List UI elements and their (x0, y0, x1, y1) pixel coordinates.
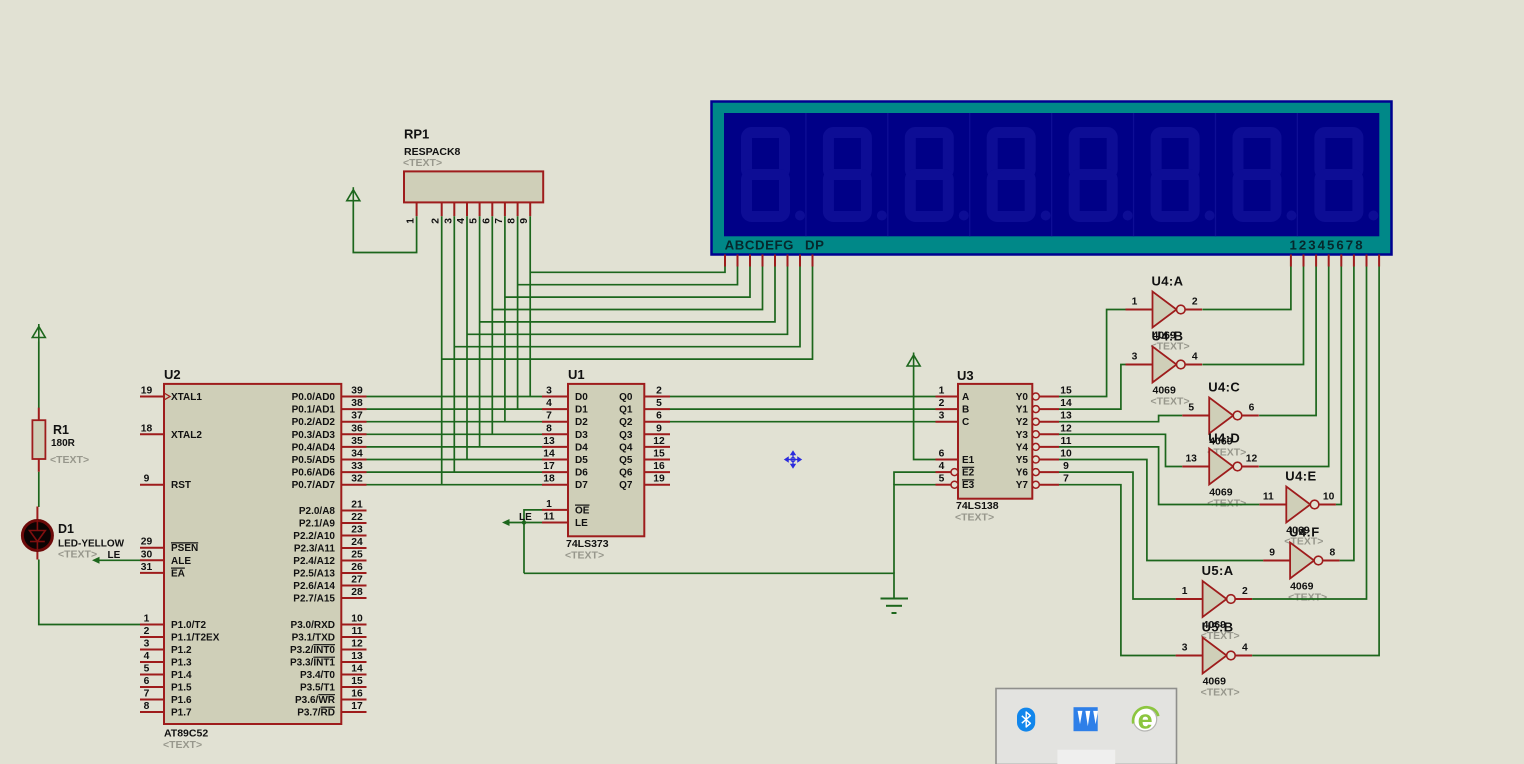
svg-text:PSEN: PSEN (171, 543, 198, 554)
svg-text:13: 13 (1060, 411, 1072, 422)
inverter U4:D (4069) (1182, 431, 1259, 510)
svg-text:D1: D1 (575, 405, 588, 416)
svg-text:7: 7 (546, 411, 552, 422)
svg-text:1: 1 (939, 386, 945, 397)
svg-text:22: 22 (351, 512, 363, 523)
power terminal (RP1 pin1) (347, 187, 360, 205)
svg-text:Q3: Q3 (619, 430, 633, 441)
svg-text:12: 12 (1060, 423, 1072, 434)
wire P0.6 to U1 D6 (367, 471, 543, 473)
wire inverter out to display pin 6 (1340, 267, 1354, 561)
svg-text:5: 5 (939, 474, 945, 485)
inverter U4:B (4069) (1126, 329, 1203, 408)
wire Y5 to U4:F (1059, 460, 1263, 561)
svg-text:8: 8 (507, 218, 518, 224)
svg-text:9: 9 (1269, 548, 1275, 559)
svg-text:10: 10 (351, 614, 363, 625)
svg-text:LE: LE (108, 550, 121, 561)
svg-text:13: 13 (1185, 454, 1197, 465)
svg-text:12: 12 (1246, 454, 1258, 465)
svg-text:D0: D0 (575, 392, 588, 403)
power terminal (VCC to R1) (32, 324, 45, 342)
svg-text:6: 6 (144, 676, 150, 687)
svg-text:P2.1/A9: P2.1/A9 (299, 519, 336, 530)
svg-text:<TEXT>: <TEXT> (565, 550, 604, 562)
svg-text:3: 3 (1132, 352, 1138, 363)
svg-text:4: 4 (1192, 352, 1198, 363)
wire P0.0 to U1 D0 (367, 396, 543, 398)
svg-text:RP1: RP1 (404, 127, 429, 142)
latch U1 (74LS373) (542, 367, 670, 562)
wire U3 E3 to ground rail (894, 485, 936, 574)
svg-text:P3.7/RD: P3.7/RD (297, 708, 335, 719)
wire display segment DP (442, 267, 813, 360)
svg-text:EA: EA (171, 568, 185, 579)
svg-text:E1: E1 (962, 455, 975, 466)
svg-text:U5:A: U5:A (1202, 563, 1234, 578)
resistor R1 (32, 408, 89, 472)
power terminal (U3 E1) (907, 353, 920, 371)
svg-text:AT89C52: AT89C52 (164, 728, 208, 740)
svg-text:P3.0/RXD: P3.0/RXD (291, 620, 335, 631)
svg-text:E2: E2 (962, 468, 975, 479)
svg-text:18: 18 (141, 423, 153, 434)
svg-text:P1.5: P1.5 (171, 683, 192, 694)
ground (881, 599, 909, 614)
svg-text:Y6: Y6 (1016, 468, 1029, 479)
svg-text:P0.0/AD0: P0.0/AD0 (292, 392, 336, 403)
svg-text:15: 15 (653, 449, 665, 460)
wire RP1 pin5 vertical to P0.4 bus (479, 216, 481, 447)
svg-text:16: 16 (351, 689, 363, 700)
wire P0.5 to U1 D5 (367, 459, 543, 461)
popup panel (996, 689, 1177, 764)
svg-text:Q0: Q0 (619, 392, 633, 403)
inverter U5:B (4069) (1176, 620, 1253, 699)
wire P0.7 to U1 D7 (367, 484, 543, 486)
svg-text:P0.4/AD4: P0.4/AD4 (292, 442, 336, 453)
svg-text:P3.3/INT1: P3.3/INT1 (290, 658, 335, 669)
wire Y4 to U4:E (1059, 447, 1259, 505)
wire U1 Q0 to U3 (670, 396, 936, 398)
svg-text:35: 35 (351, 436, 363, 447)
svg-text:9: 9 (656, 423, 662, 434)
svg-text:Y2: Y2 (1016, 417, 1029, 428)
svg-text:RST: RST (171, 480, 191, 491)
svg-text:U4:B: U4:B (1152, 329, 1184, 344)
wire inverter out to display pin 5 (1336, 267, 1341, 505)
svg-text:U4:D: U4:D (1208, 431, 1240, 446)
inverter U4:C (4069) (1182, 380, 1259, 459)
wire D1 to U2 P1.0 (39, 560, 140, 625)
svg-text:Y4: Y4 (1016, 442, 1029, 453)
svg-text:P0.5/AD5: P0.5/AD5 (292, 455, 336, 466)
svg-text:17: 17 (351, 701, 363, 712)
svg-text:1: 1 (144, 614, 150, 625)
svg-text:7: 7 (494, 218, 505, 224)
svg-text:<TEXT>: <TEXT> (1207, 498, 1246, 510)
svg-text:3: 3 (546, 386, 552, 397)
svg-text:34: 34 (351, 449, 363, 460)
svg-text:Y1: Y1 (1016, 405, 1029, 416)
svg-text:15: 15 (351, 676, 363, 687)
wire inverter out to display pin 4 (1259, 267, 1329, 467)
svg-text:9: 9 (519, 218, 530, 224)
svg-text:4: 4 (456, 218, 467, 224)
svg-text:D3: D3 (575, 430, 588, 441)
wire display segment F (467, 267, 788, 335)
inverter U5:A (4069) (1176, 563, 1253, 642)
wire inverter out to display pin 8 (1252, 267, 1379, 656)
svg-text:D4: D4 (575, 442, 588, 453)
svg-text:4: 4 (546, 398, 552, 409)
svg-text:9: 9 (144, 474, 150, 485)
wire display segment D (492, 267, 762, 310)
svg-text:<TEXT>: <TEXT> (163, 739, 202, 751)
wire RP1 pin6 vertical to P0.3 bus (491, 216, 493, 434)
svg-text:D5: D5 (575, 455, 588, 466)
wire U1 Q2 to U3 (670, 421, 936, 423)
svg-text:P3.4/T0: P3.4/T0 (300, 670, 335, 681)
svg-text:A: A (962, 392, 969, 403)
wire power to U3 E1 (914, 370, 936, 460)
svg-text:12345678: 12345678 (1290, 238, 1365, 253)
wire P0.4 to U1 D4 (367, 446, 543, 448)
svg-text:10: 10 (1060, 449, 1072, 460)
svg-text:5: 5 (656, 398, 662, 409)
wire U3 E2 to ground rail (894, 472, 936, 485)
wire power to R1 (38, 342, 40, 409)
svg-text:OE: OE (575, 505, 590, 516)
svg-text:8: 8 (1330, 548, 1336, 559)
svg-text:<TEXT>: <TEXT> (955, 512, 994, 524)
svg-text:1: 1 (406, 218, 417, 224)
svg-text:12: 12 (653, 436, 665, 447)
wire U1 Q1 to U3 (670, 408, 936, 410)
svg-text:3: 3 (443, 218, 454, 224)
wire RP1 pin3 vertical to P0.6 bus (453, 216, 455, 472)
svg-text:9: 9 (1063, 461, 1069, 472)
svg-text:Q2: Q2 (619, 417, 633, 428)
svg-text:6: 6 (1249, 403, 1255, 414)
svg-text:P1.1/T2EX: P1.1/T2EX (171, 633, 220, 644)
svg-text:2: 2 (144, 626, 150, 637)
svg-text:30: 30 (141, 549, 153, 560)
svg-text:U3: U3 (957, 368, 974, 383)
svg-text:P0.1/AD1: P0.1/AD1 (292, 405, 336, 416)
svg-text:U4:E: U4:E (1285, 469, 1316, 484)
inverter U4:A (4069) (1126, 274, 1203, 353)
svg-text:P3.2/INT0: P3.2/INT0 (290, 645, 335, 656)
svg-text:21: 21 (351, 500, 363, 511)
svg-text:4: 4 (1242, 643, 1248, 654)
wire Y1 to U4:B (1059, 365, 1126, 410)
svg-text:D1: D1 (58, 522, 74, 536)
svg-text:<TEXT>: <TEXT> (403, 157, 442, 169)
svg-text:3: 3 (144, 639, 150, 650)
wire display segment C (505, 267, 750, 298)
svg-text:U2: U2 (164, 367, 181, 382)
LED D1 (22, 507, 124, 561)
wire display segment G (454, 267, 800, 347)
svg-text:Y0: Y0 (1016, 392, 1029, 403)
wire P0.1 to U1 D1 (367, 408, 543, 410)
wire display segment A (530, 267, 725, 273)
svg-text:Y3: Y3 (1016, 430, 1029, 441)
svg-text:Y5: Y5 (1016, 455, 1029, 466)
svg-text:Q6: Q6 (619, 468, 633, 479)
wire P0.3 to U1 D3 (367, 433, 543, 435)
svg-text:P0.7/AD7: P0.7/AD7 (292, 480, 336, 491)
wire R1 to D1 (38, 472, 40, 507)
svg-text:5: 5 (144, 664, 150, 675)
icon W player (1074, 707, 1099, 731)
svg-text:74LS138: 74LS138 (956, 500, 999, 512)
svg-text:5: 5 (1188, 403, 1194, 414)
svg-text:11: 11 (1263, 492, 1274, 503)
svg-text:P0.3/AD3: P0.3/AD3 (292, 430, 336, 441)
wire Y0 to U4:A (1059, 310, 1126, 397)
svg-text:P0.2/AD2: P0.2/AD2 (292, 417, 336, 428)
svg-text:28: 28 (351, 587, 363, 598)
svg-text:<TEXT>: <TEXT> (1288, 592, 1327, 604)
svg-text:P0.6/AD6: P0.6/AD6 (292, 468, 336, 479)
svg-text:C: C (962, 417, 969, 428)
svg-text:19: 19 (653, 474, 665, 485)
svg-text:3: 3 (1182, 643, 1188, 654)
svg-text:P2.2/A10: P2.2/A10 (293, 531, 335, 542)
svg-text:8: 8 (546, 423, 552, 434)
svg-text:11: 11 (352, 626, 363, 637)
svg-text:18: 18 (543, 474, 555, 485)
terminal LE (at U1) (502, 512, 542, 526)
wire RP1 pin8 vertical to P0.1 bus (517, 216, 519, 409)
wire inverter out to display pin 1 (1202, 267, 1291, 310)
svg-text:Q7: Q7 (619, 480, 633, 491)
svg-text:DP: DP (805, 238, 825, 253)
svg-text:2: 2 (1242, 586, 1248, 597)
svg-text:7: 7 (1063, 474, 1069, 485)
svg-text:R1: R1 (53, 423, 69, 437)
icon green e browser (1133, 705, 1158, 735)
wire OE/LE to ground rail (524, 573, 894, 598)
svg-text:Q1: Q1 (619, 405, 633, 416)
svg-text:P1.4: P1.4 (171, 670, 192, 681)
svg-text:11: 11 (544, 512, 555, 523)
svg-text:D6: D6 (575, 468, 588, 479)
wire RP1 pin2 vertical to P0.7 bus (441, 216, 443, 485)
svg-text:U4:A: U4:A (1152, 274, 1184, 289)
svg-text:P2.7/A15: P2.7/A15 (293, 594, 335, 605)
svg-text:P2.3/A11: P2.3/A11 (294, 544, 336, 555)
svg-text:ALE: ALE (171, 556, 191, 567)
svg-text:ABCDEFG: ABCDEFG (725, 238, 794, 253)
svg-text:1: 1 (546, 499, 552, 510)
wire inverter out to display pin 3 (1259, 267, 1316, 416)
wire Y2 to U4:C (1059, 416, 1182, 422)
svg-text:E3: E3 (962, 480, 975, 491)
svg-text:25: 25 (351, 550, 363, 561)
svg-text:U4:C: U4:C (1208, 380, 1240, 395)
decoder U3 (74LS138) (936, 368, 1072, 524)
svg-text:180R: 180R (51, 438, 76, 449)
svg-text:P1.7: P1.7 (171, 708, 192, 719)
icon bluetooth (1017, 708, 1035, 732)
svg-text:Y7: Y7 (1016, 480, 1029, 491)
svg-text:P2.0/A8: P2.0/A8 (299, 506, 336, 517)
svg-text:15: 15 (1060, 386, 1072, 397)
svg-text:P1.6: P1.6 (171, 695, 192, 706)
svg-text:P3.6/WR: P3.6/WR (295, 695, 336, 706)
wire RP1 pin7 vertical to P0.2 bus (504, 216, 506, 422)
inverter U4:F (4069) (1263, 525, 1340, 604)
svg-text:P1.0/T2: P1.0/T2 (171, 620, 206, 631)
svg-text:19: 19 (141, 386, 153, 397)
svg-text:4: 4 (939, 461, 945, 472)
svg-text:2: 2 (431, 218, 442, 224)
inverter U4:E (4069) (1259, 469, 1336, 548)
svg-text:16: 16 (653, 461, 665, 472)
svg-text:10: 10 (1323, 492, 1335, 503)
svg-text:23: 23 (351, 525, 363, 536)
wire RP1 pin9 vertical to P0.0 bus (529, 216, 531, 396)
svg-text:P1.3: P1.3 (171, 658, 192, 669)
svg-text:P2.5/A13: P2.5/A13 (293, 569, 335, 580)
svg-text:14: 14 (1060, 398, 1072, 409)
svg-text:XTAL2: XTAL2 (171, 430, 202, 441)
svg-text:13: 13 (351, 651, 363, 662)
svg-text:26: 26 (351, 562, 363, 573)
svg-text:6: 6 (939, 449, 945, 460)
svg-text:2: 2 (939, 398, 945, 409)
svg-text:39: 39 (351, 386, 363, 397)
wire inverter out to display pin 7 (1252, 267, 1366, 600)
svg-text:31: 31 (141, 562, 153, 573)
svg-text:2: 2 (656, 386, 662, 397)
svg-text:P2.4/A12: P2.4/A12 (293, 556, 335, 567)
svg-text:24: 24 (351, 537, 363, 548)
svg-text:13: 13 (543, 436, 555, 447)
terminal LE (at U2 ALE) (92, 550, 140, 564)
wire Y7 to U5:B (1059, 485, 1176, 656)
svg-text:LE: LE (575, 518, 588, 529)
svg-text:1: 1 (1132, 297, 1138, 308)
svg-text:37: 37 (351, 411, 363, 422)
svg-text:36: 36 (351, 423, 363, 434)
svg-text:17: 17 (543, 461, 555, 472)
wire Y6 to U5:A (1059, 472, 1176, 599)
svg-text:38: 38 (351, 398, 363, 409)
svg-text:<TEXT>: <TEXT> (58, 549, 97, 561)
svg-text:U1: U1 (568, 367, 585, 382)
svg-text:3: 3 (939, 411, 945, 422)
svg-text:74LS373: 74LS373 (566, 538, 609, 550)
svg-text:5: 5 (469, 218, 480, 224)
svg-text:2: 2 (1192, 297, 1198, 308)
svg-text:D2: D2 (575, 417, 588, 428)
wire U1 OE (524, 510, 542, 573)
wire RP1 pin1 to power (353, 205, 416, 253)
wire display segment B (518, 267, 738, 285)
svg-text:D7: D7 (575, 480, 588, 491)
svg-text:U5:B: U5:B (1202, 620, 1234, 635)
microcontroller U2 (AT89C52) (140, 367, 367, 751)
svg-text:<TEXT>: <TEXT> (1201, 687, 1240, 699)
svg-text:B: B (962, 405, 969, 416)
svg-text:8: 8 (144, 701, 150, 712)
svg-text:27: 27 (351, 575, 363, 586)
wire P0.2 to U1 D2 (367, 421, 543, 423)
wire RP1 pin4 vertical to P0.5 bus (466, 216, 468, 459)
svg-text:11: 11 (1061, 436, 1072, 447)
wire Y3 to U4:D (1059, 434, 1182, 466)
svg-text:12: 12 (351, 639, 363, 650)
8-digit 7-segment display DS1 (712, 102, 1392, 267)
svg-text:7: 7 (144, 689, 150, 700)
svg-text:<TEXT>: <TEXT> (50, 454, 89, 466)
svg-text:4: 4 (144, 651, 150, 662)
svg-text:Q4: Q4 (619, 442, 633, 453)
svg-text:XTAL1: XTAL1 (171, 392, 202, 403)
svg-text:P3.5/T1: P3.5/T1 (300, 683, 335, 694)
wire display segment E (480, 267, 775, 322)
svg-text:U4:F: U4:F (1289, 525, 1320, 540)
svg-text:32: 32 (351, 474, 363, 485)
svg-text:Q5: Q5 (619, 455, 633, 466)
resistor pack RP1 (RESPACK-8) (403, 127, 543, 224)
svg-text:29: 29 (141, 537, 153, 548)
svg-text:6: 6 (656, 411, 662, 422)
svg-text:<TEXT>: <TEXT> (1151, 396, 1190, 408)
svg-text:6: 6 (481, 218, 492, 224)
svg-text:14: 14 (351, 664, 363, 675)
svg-text:P3.1/TXD: P3.1/TXD (292, 633, 335, 644)
wire inverter out to display pin 2 (1202, 267, 1303, 365)
svg-text:1: 1 (1182, 586, 1188, 597)
svg-text:33: 33 (351, 461, 363, 472)
cursor crosshair (785, 452, 801, 468)
svg-text:14: 14 (543, 449, 555, 460)
svg-text:P2.6/A14: P2.6/A14 (293, 581, 335, 592)
svg-text:P1.2: P1.2 (171, 645, 192, 656)
